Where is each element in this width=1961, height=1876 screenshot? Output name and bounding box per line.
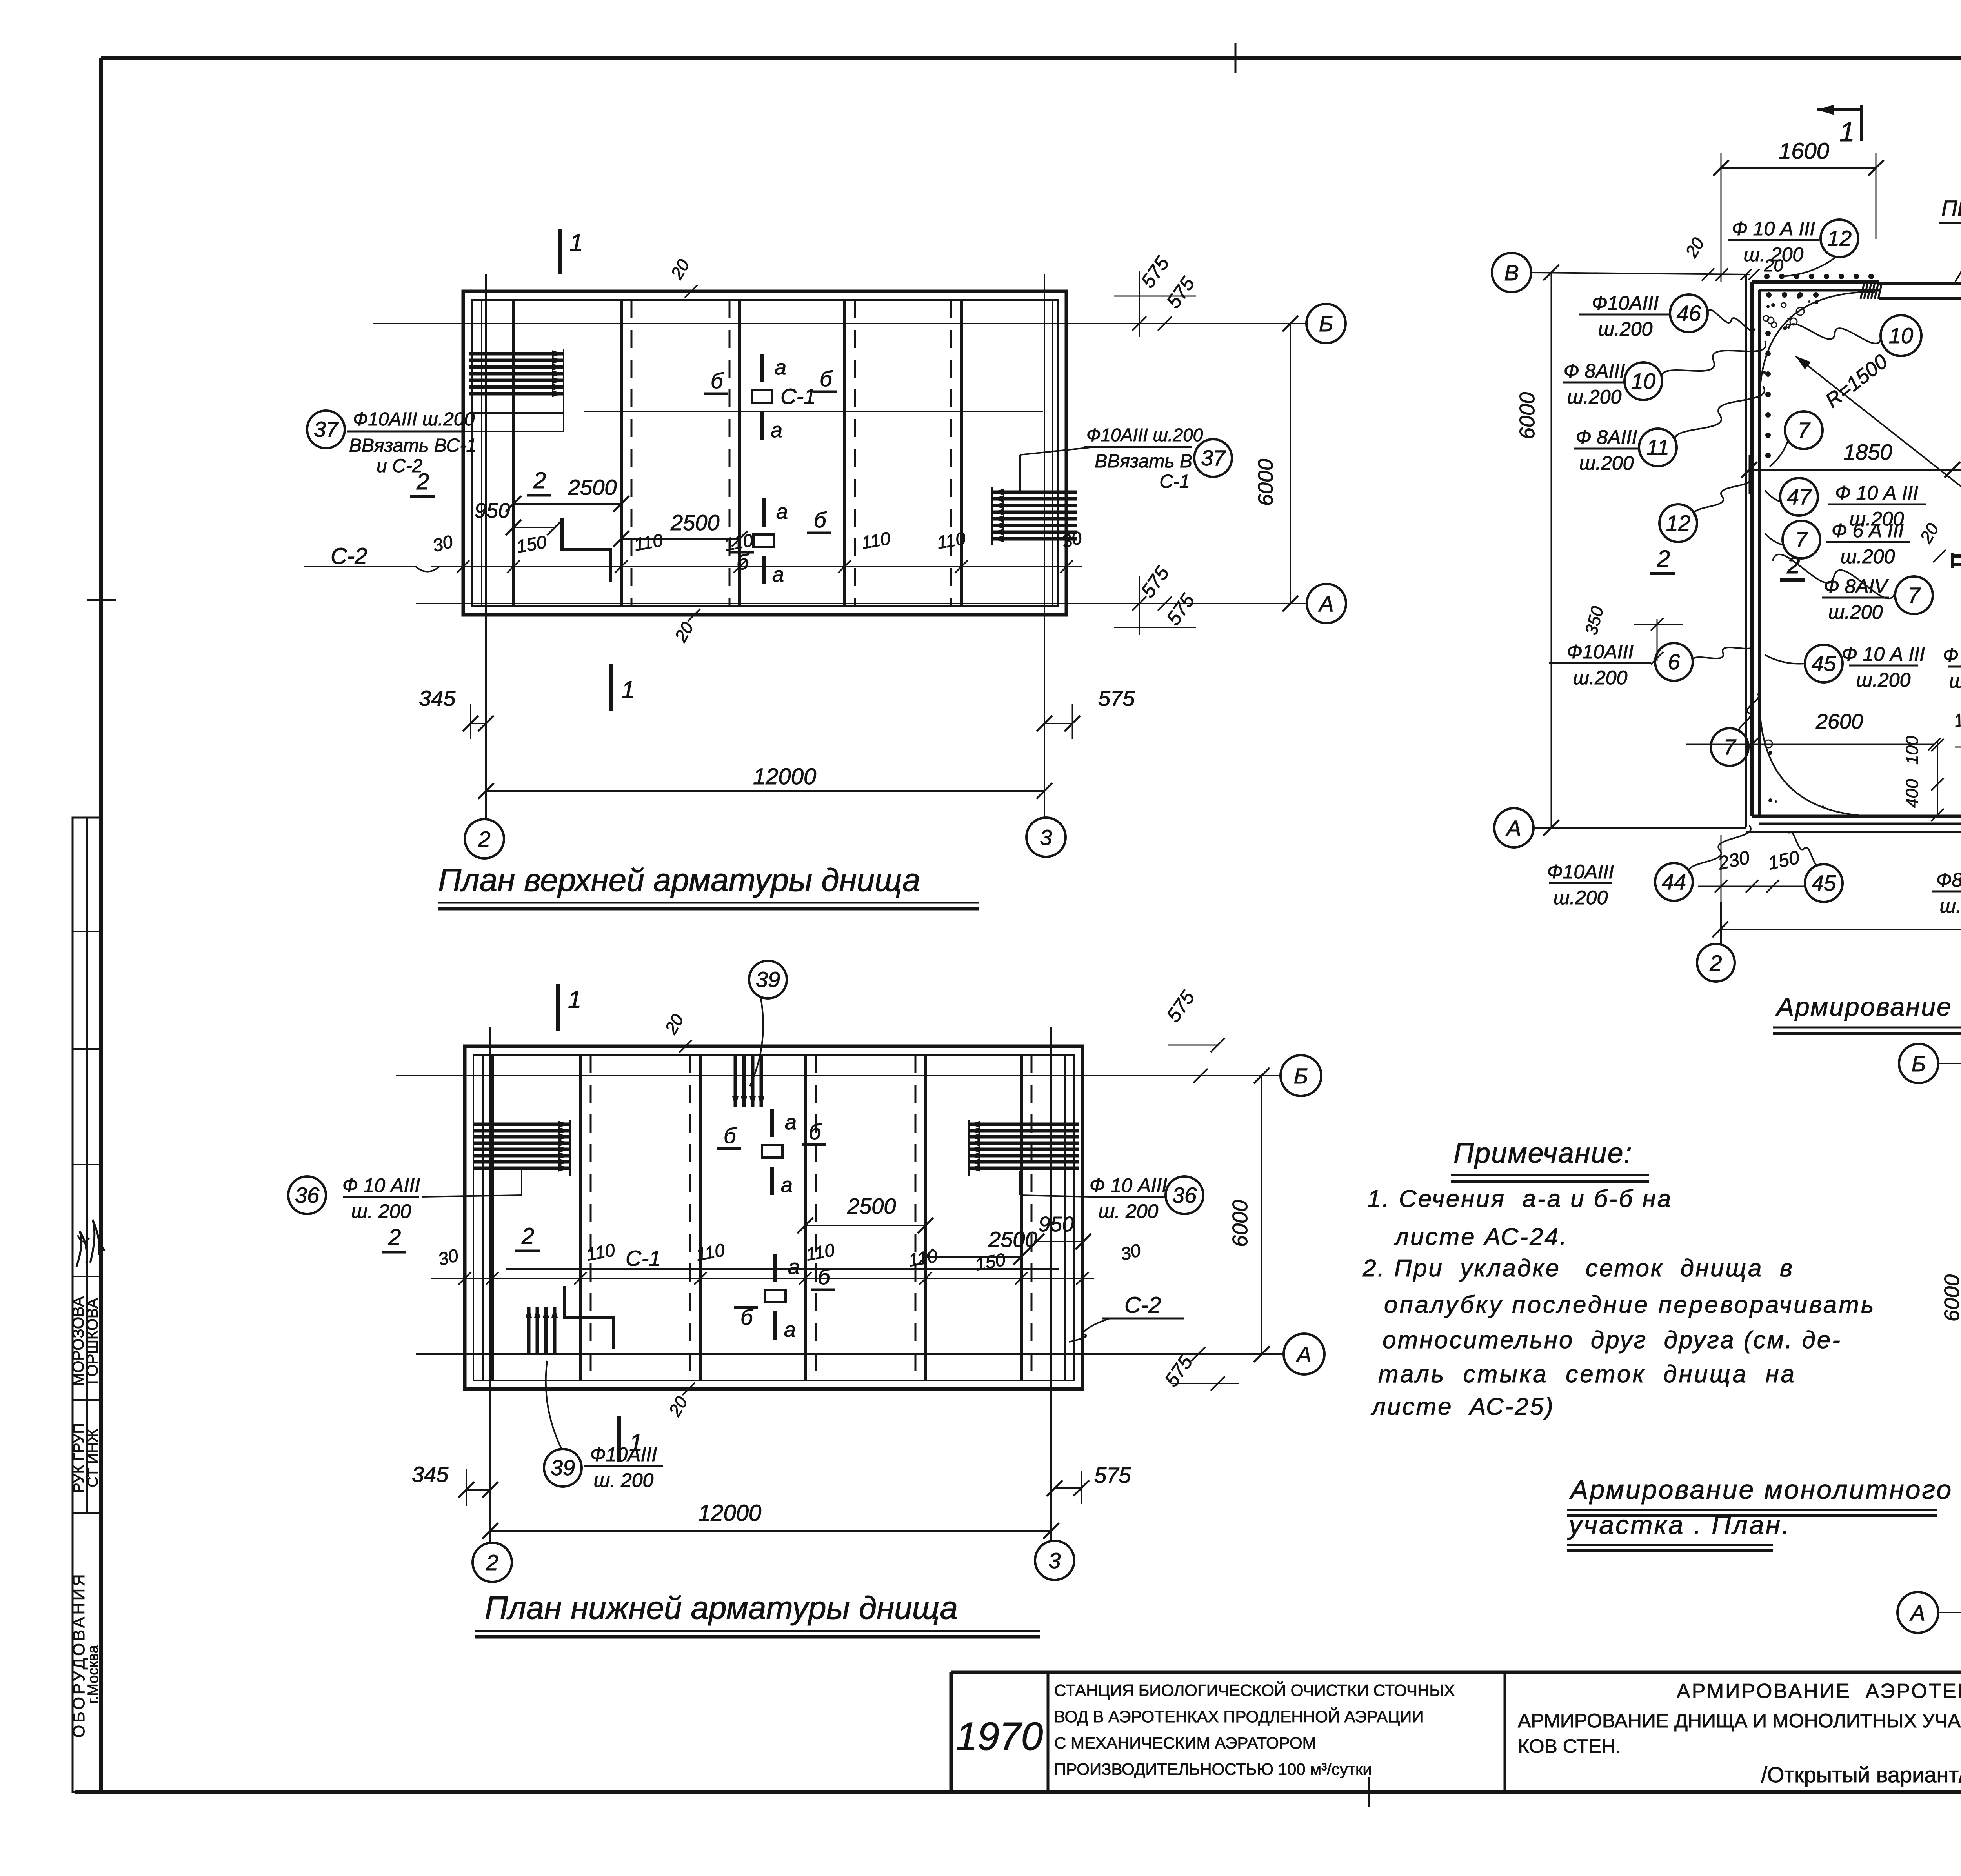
detail 1 bottom wall	[1752, 815, 1961, 818]
svg-text:Армирование монолитного учас: Армирование монолитного участка. План	[1775, 992, 1961, 1021]
svg-text:А: А	[1505, 816, 1521, 840]
plan 2 callout 39 top	[749, 961, 787, 998]
plan 1 mesh square C-1 upper	[752, 390, 772, 403]
svg-text:таль стыка сеток днища на: таль стыка сеток днища на	[1378, 1361, 1796, 1388]
svg-text:3: 3	[1040, 825, 1052, 850]
svg-text:2600: 2600	[1815, 710, 1863, 733]
svg-text:2: 2	[486, 1550, 498, 1575]
svg-text:12000: 12000	[753, 764, 816, 789]
detail 1 callout 10 left with Ф8АIII	[1563, 382, 1625, 384]
detail 1 axis circle А	[1494, 808, 1534, 847]
svg-text:2. При укладке сеток днища: 2. При укладке сеток днища в	[1362, 1255, 1794, 1282]
plan 2 top-middle vertical bars	[734, 1056, 737, 1107]
svg-text:ш.200: ш.200	[1598, 318, 1653, 340]
plan 2 axis circle 3	[1035, 1541, 1074, 1580]
svg-text:2500: 2500	[988, 1227, 1037, 1252]
detail 1 top panel ПБ1-24-2-1А	[1861, 282, 1879, 284]
svg-text:Ф 8АIII: Ф 8АIII	[1576, 426, 1637, 448]
svg-text:Ф10АIII: Ф10АIII	[590, 1443, 657, 1465]
svg-text:ПРОИЗВОДИТЕЛЬНОСТЬЮ 100 м³/сут: ПРОИЗВОДИТЕЛЬНОСТЬЮ 100 м³/сутки	[1054, 1760, 1372, 1778]
detail 1 callout 12 with Ф10АIII	[1728, 239, 1819, 241]
svg-text:45: 45	[1812, 871, 1836, 895]
svg-text:345: 345	[419, 686, 456, 711]
plan 1 axis circle А	[1307, 584, 1346, 623]
detail 1 callout 45 bottom-left	[1805, 864, 1843, 902]
svg-text:345: 345	[412, 1462, 449, 1487]
svg-text:10: 10	[1631, 369, 1655, 393]
detail 1 corner fillet R=1500 top	[1759, 292, 1875, 404]
left sidebar stamp boxes	[73, 818, 101, 1513]
detail 1 section mark 1 top	[1817, 108, 1861, 111]
detail 1 callout 5 with Ф8АIII	[1932, 891, 1961, 893]
svg-text:а: а	[776, 500, 788, 524]
svg-text:участка . План.: участка . План.	[1567, 1510, 1791, 1540]
svg-text:ВВязать ВС-1: ВВязать ВС-1	[349, 435, 477, 456]
svg-text:Ф10АIII: Ф10АIII	[1567, 641, 1634, 663]
svg-text:опалубку последние переворачив: опалубку последние переворачивать	[1384, 1291, 1876, 1318]
svg-text:45: 45	[1812, 651, 1836, 676]
svg-text:относительно друг друга (см.: относительно друг друга (см. де-	[1383, 1327, 1842, 1354]
svg-text:6: 6	[1668, 649, 1680, 674]
svg-text:С-1: С-1	[626, 1246, 661, 1271]
plan 1 axis circle 3	[1026, 818, 1066, 857]
svg-text:ш. 200: ш. 200	[594, 1469, 654, 1491]
svg-text:46: 46	[1677, 301, 1701, 325]
svg-text:ш.200: ш.200	[1579, 452, 1634, 474]
plan 1 callout 37 right	[1194, 439, 1232, 477]
svg-text:ш.200: ш.200	[1841, 545, 1895, 567]
svg-text:б: б	[814, 507, 827, 532]
detail 1 axis circle В	[1492, 253, 1531, 292]
detail 1 callout 12 lower	[1659, 504, 1697, 542]
svg-text:6000: 6000	[1515, 392, 1539, 439]
svg-text:575: 575	[1094, 1463, 1131, 1487]
svg-text:7: 7	[1797, 418, 1810, 442]
plan 1 callout 37 left	[307, 411, 345, 448]
detail 1 corner fillet bottom	[1759, 698, 1881, 816]
svg-text:С-1: С-1	[1159, 471, 1190, 492]
fold mark left	[87, 599, 116, 601]
svg-text:2500: 2500	[670, 510, 720, 535]
svg-text:ш. 200: ш. 200	[351, 1200, 411, 1222]
svg-text:г.Москва: г.Москва	[85, 1645, 102, 1703]
plan 2 callout 36 right	[1166, 1176, 1203, 1214]
svg-text:Ф 10 А III: Ф 10 А III	[1732, 218, 1815, 240]
svg-text:950: 950	[475, 499, 510, 522]
svg-text:1: 1	[1839, 116, 1855, 147]
svg-text:Армирование монолитного: Армирование монолитного	[1569, 1475, 1953, 1505]
svg-text:12: 12	[1827, 226, 1852, 251]
plan 1 mesh square lower	[753, 534, 774, 547]
svg-text:Ф8А III: Ф8А III	[1936, 869, 1961, 891]
svg-text:400: 400	[1903, 779, 1922, 808]
svg-text:Ф 10 А III: Ф 10 А III	[1842, 643, 1925, 665]
detail 1 callout 7 mid	[1785, 411, 1823, 449]
svg-text:1600: 1600	[1779, 138, 1829, 164]
svg-text:2500: 2500	[847, 1194, 896, 1218]
svg-text:КОВ СТЕН.: КОВ СТЕН.	[1518, 1735, 1621, 1757]
plan 2 outer wall rectangle	[465, 1046, 1082, 1389]
svg-text:ш. 200: ш. 200	[1744, 244, 1804, 265]
svg-text:950: 950	[1039, 1212, 1074, 1236]
svg-text:б: б	[724, 1123, 737, 1148]
fold mark top	[1235, 43, 1237, 73]
svg-text:и С-2: и С-2	[377, 456, 422, 476]
plan 1 axis line Б	[373, 323, 1306, 324]
fold mark bottom	[1368, 1777, 1370, 1807]
svg-text:а: а	[775, 356, 786, 379]
svg-text:2: 2	[533, 468, 546, 493]
detail 1 wall corner	[1750, 282, 1754, 816]
svg-text:листе АС-24.: листе АС-24.	[1394, 1223, 1568, 1251]
plan 2 top-left rebar hatch	[473, 1123, 570, 1126]
svg-text:ш. 200: ш. 200	[1099, 1200, 1159, 1222]
svg-text:2: 2	[388, 1225, 401, 1250]
plan 2 mesh square C-1 upper	[762, 1145, 782, 1158]
svg-text:АРМИРОВАНИЕ ДНИЩА И МОНОЛИТНЫХ: АРМИРОВАНИЕ ДНИЩА И МОНОЛИТНЫХ УЧАСТ-	[1518, 1710, 1961, 1732]
svg-text:39: 39	[756, 967, 780, 992]
plan 1 axis circle Б	[1306, 304, 1346, 343]
plan 1 section step cut line	[562, 518, 611, 582]
svg-text:План верхней арматуры днища: План верхней арматуры днища	[438, 862, 920, 898]
svg-text:Ф 10 АIII: Ф 10 АIII	[342, 1174, 420, 1196]
svg-text:ВОД В АЭРОТЕНКАХ ПРОДЛЕННОЙ АЭ: ВОД В АЭРОТЕНКАХ ПРОДЛЕННОЙ АЭРАЦИИ	[1054, 1707, 1424, 1726]
plan 2 axis circle А	[1284, 1334, 1324, 1374]
svg-text:Ф 8АIII: Ф 8АIII	[1564, 360, 1625, 382]
svg-text:3: 3	[1048, 1548, 1061, 1573]
svg-text:СТАНЦИЯ БИОЛОГИЧЕСКОЙ ОЧИСТКИ: СТАНЦИЯ БИОЛОГИЧЕСКОЙ ОЧИСТКИ СТОЧНЫХ	[1054, 1681, 1455, 1700]
svg-text:б: б	[818, 1264, 831, 1289]
plan 1 axis line А	[416, 603, 1306, 604]
svg-text:6000: 6000	[1254, 459, 1277, 506]
detail 1 axis circle 2 bottom	[1697, 944, 1735, 982]
svg-text:а: а	[771, 418, 782, 442]
svg-text:Ф10АIII: Ф10АIII	[1547, 861, 1614, 883]
svg-text:2: 2	[521, 1223, 534, 1249]
svg-text:2: 2	[478, 827, 490, 851]
svg-text:6000: 6000	[1228, 1200, 1252, 1247]
plan 2 column axis 3 vertical	[1050, 1027, 1052, 1541]
plan 1 right rebar hatch	[992, 491, 1077, 494]
detail 1 callout 6 with Ф10АIII	[1549, 662, 1651, 664]
plan 2 axis circle 2	[473, 1543, 512, 1582]
plan 2 section mark 1 top	[556, 984, 560, 1031]
svg-text:44: 44	[1662, 869, 1686, 894]
plan 2 callout 39 bottom	[544, 1449, 582, 1487]
svg-text:С МЕХАНИЧЕСКИМ АЭРАТОРОМ: С МЕХАНИЧЕСКИМ АЭРАТОРОМ	[1054, 1734, 1316, 1752]
svg-text:ВВязать В: ВВязать В	[1095, 451, 1192, 472]
svg-text:б: б	[809, 1119, 822, 1144]
svg-text:А: А	[1295, 1342, 1311, 1367]
plan 1 mid horizontal section line	[584, 411, 1043, 412]
svg-text:Ф 10 А III: Ф 10 А III	[1835, 482, 1918, 504]
svg-text:а: а	[785, 1111, 797, 1134]
svg-text:37: 37	[314, 417, 339, 442]
svg-text:1. Сечения а-а и б-б на: 1. Сечения а-а и б-б на	[1367, 1185, 1672, 1212]
svg-text:12000: 12000	[698, 1500, 761, 1526]
svg-text:1: 1	[569, 229, 583, 256]
plan 1 section mark 1 bottom	[609, 664, 613, 711]
plan 2 mid horizontal section line	[506, 1268, 1059, 1270]
plan 2 axis line А	[416, 1353, 1284, 1355]
svg-text:а: а	[784, 1318, 796, 1342]
svg-text:7: 7	[1723, 734, 1736, 759]
svg-text:10: 10	[1889, 323, 1913, 348]
svg-text:1: 1	[568, 986, 581, 1013]
svg-text:Б: Б	[1294, 1063, 1308, 1088]
svg-text:2: 2	[1657, 545, 1670, 572]
svg-text:ГОРШКОВА: ГОРШКОВА	[84, 1298, 101, 1384]
plan 1 internal joint lines	[481, 300, 482, 606]
plan 1 axis circle 2	[465, 819, 504, 858]
detail 1 callout 7 lower-left	[1711, 728, 1748, 766]
detail 2 axis circle А	[1897, 1592, 1938, 1633]
svg-text:СТ ИНЖ: СТ ИНЖ	[85, 1429, 101, 1487]
plan 1 outer wall rectangle	[463, 291, 1066, 615]
svg-text:12: 12	[1666, 511, 1690, 535]
svg-text:Ф 6 А III: Ф 6 А III	[1832, 520, 1904, 542]
svg-text:1970: 1970	[956, 1714, 1043, 1758]
plan 1 dim 6000 right	[1290, 324, 1291, 604]
svg-text:ш.200: ш.200	[1940, 895, 1961, 917]
svg-text:7: 7	[1908, 583, 1921, 607]
svg-text:6000: 6000	[1940, 1274, 1961, 1322]
detail 1 R=1500 label	[1795, 356, 1961, 497]
svg-text:С-1: С-1	[780, 384, 816, 409]
svg-text:Ф10АIII: Ф10АIII	[1592, 292, 1659, 314]
svg-text:Б: Б	[1319, 311, 1333, 336]
svg-text:А: А	[1318, 591, 1333, 616]
plan 1 top-left rebar hatch	[469, 352, 564, 356]
plan 2 callout 36 left	[288, 1176, 326, 1214]
plan 2 axis circle Б	[1281, 1055, 1321, 1096]
sidebar cell ОБОРУДОВАНИЯ г.Москва	[73, 1513, 101, 1792]
svg-text:37: 37	[1201, 445, 1226, 470]
svg-text:С-2: С-2	[1124, 1292, 1161, 1318]
svg-text:36: 36	[1172, 1183, 1197, 1207]
svg-text:ПБ1-24-2-1А: ПБ1-24-2-1А	[1941, 196, 1961, 220]
svg-text:2: 2	[1709, 951, 1722, 975]
plan 1 column axis 3 vertical	[1044, 274, 1045, 818]
svg-text:575: 575	[1098, 686, 1135, 711]
svg-text:Ф 10 АIII: Ф 10 АIII	[1090, 1174, 1167, 1196]
svg-text:2500: 2500	[568, 475, 617, 500]
svg-text:ш.200: ш.200	[1554, 887, 1608, 909]
detail 1 callout 8 bottom with Ф6АIII	[1948, 666, 1961, 668]
svg-text:ш.200: ш.200	[1567, 386, 1622, 408]
detail 1 callout 44 left with Ф10АIII	[1549, 882, 1612, 884]
detail 1 panel ПК1-24-1	[1952, 554, 1961, 558]
svg-text:АРМИРОВАНИЕ АЭРОТЕНКА.: АРМИРОВАНИЕ АЭРОТЕНКА.	[1677, 1680, 1961, 1703]
plan 2 column axis 2 vertical	[489, 1027, 491, 1543]
detail 1 callout 7 with Ф6АIII	[1783, 521, 1820, 558]
svg-text:Ф10АIII ш.200: Ф10АIII ш.200	[353, 409, 475, 430]
svg-text:ш. 200: ш. 200	[1949, 670, 1961, 692]
svg-text:б: б	[711, 368, 724, 393]
svg-text:ш.200: ш.200	[1573, 667, 1628, 689]
plan 2 section mark 1 bottom	[617, 1416, 621, 1462]
sidebar signature squiggles	[76, 1231, 87, 1267]
detail 1 callout 46 with Ф10АIII	[1579, 314, 1671, 316]
svg-text:Ф 6 А III: Ф 6 А III	[1943, 644, 1961, 666]
plan 2 bottom-left vertical bars	[527, 1307, 531, 1354]
plan 2 axis line Б	[396, 1075, 1281, 1076]
plan 2 mesh square lower	[765, 1290, 786, 1302]
svg-text:47: 47	[1787, 484, 1812, 509]
svg-text:листе АС-25): листе АС-25)	[1371, 1393, 1555, 1420]
detail 1 callout 11 with Ф8АIII	[1574, 448, 1640, 450]
plan 2 dim 6000 right	[1261, 1076, 1262, 1354]
svg-text:ш.200: ш.200	[1856, 669, 1911, 691]
detail 2 axis circle Б	[1899, 1044, 1938, 1083]
detail 1 callout 7 with Ф8АIV	[1822, 597, 1889, 599]
sheet border frame	[101, 56, 1961, 60]
svg-text:а: а	[781, 1173, 793, 1197]
svg-text:С-2: С-2	[331, 544, 367, 569]
svg-text:а: а	[788, 1255, 800, 1279]
svg-text:1850: 1850	[1843, 440, 1892, 464]
detail 1 rebar dots wall column	[1765, 331, 1771, 336]
svg-text:Примечание:: Примечание:	[1453, 1138, 1633, 1169]
plan 1 section mark 1 top	[558, 229, 562, 274]
svg-text:б: б	[820, 366, 833, 391]
svg-text:А: А	[1909, 1600, 1925, 1625]
svg-text:39: 39	[551, 1455, 575, 1480]
detail 1 callout 10 right	[1881, 315, 1921, 356]
svg-text:Б: Б	[1912, 1051, 1926, 1076]
svg-text:ш.200: ш.200	[1828, 601, 1883, 623]
plan 2 internal joint lines	[482, 1055, 484, 1380]
svg-text:1: 1	[621, 676, 635, 703]
svg-text:36: 36	[295, 1183, 320, 1207]
plan 2 top-right rebar hatch	[969, 1123, 1079, 1126]
svg-text:11: 11	[1646, 435, 1669, 460]
detail 1 rebar dots top row	[1764, 274, 1770, 279]
svg-text:7: 7	[1795, 527, 1808, 552]
svg-text:100: 100	[1903, 736, 1922, 765]
plan 1 column axis 2 vertical	[485, 274, 487, 819]
svg-text:Ф10АIII ш.200: Ф10АIII ш.200	[1086, 425, 1203, 445]
detail 1 callout 47 with Ф10АIII	[1780, 478, 1818, 516]
detail 1 callout 45 mid with Ф10АIII	[1805, 645, 1843, 682]
plan 2 section step cut line	[565, 1286, 613, 1349]
svg-text:/Открытый вариант/: /Открытый вариант/	[1761, 1762, 1961, 1787]
svg-text:План нижней арматуры днища: План нижней арматуры днища	[485, 1590, 958, 1626]
title block frame	[951, 1671, 1961, 1674]
svg-text:В: В	[1504, 260, 1519, 285]
